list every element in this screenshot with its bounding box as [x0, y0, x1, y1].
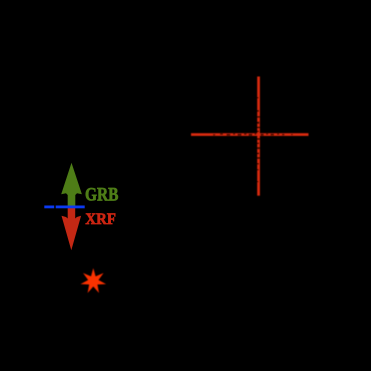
cross speckle texture	[213, 97, 293, 182]
svg-text:GRB: GRB	[85, 186, 119, 206]
GRB arrow (green, pointing up)	[61, 163, 82, 208]
error cross vertical bar	[257, 77, 260, 196]
error cross horizontal bar	[191, 133, 309, 136]
XRF arrow (red, pointing down)	[62, 206, 82, 250]
blue position line	[44, 206, 84, 209]
supernova star (7-pointed)	[81, 268, 107, 293]
svg-text:XRF: XRF	[85, 210, 116, 228]
